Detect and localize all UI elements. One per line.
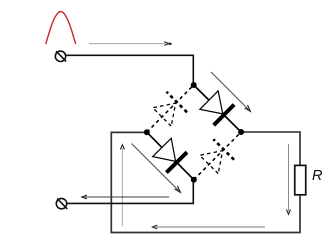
input sine half-wave (red) xyxy=(46,12,76,45)
current arrow (input, rightward, gray) xyxy=(89,42,171,46)
wire T1 to bridge top node xyxy=(66,55,194,85)
current arrow (return to source, leftward) xyxy=(82,195,169,199)
current arrow (left side, upward, gray) xyxy=(120,145,124,226)
current arrow along D3 xyxy=(132,144,181,193)
diode D3 (conducting, left node to bottom node) xyxy=(147,132,194,180)
terminal T2 xyxy=(56,198,67,208)
wire T2 to bridge bottom node xyxy=(67,180,194,204)
current arrow along D1 xyxy=(211,72,250,111)
diode D2 (off, dashed, left node to top node) xyxy=(147,85,194,132)
node (bridge left) xyxy=(144,129,150,135)
terminal T1 xyxy=(55,51,66,62)
current arrow (bottom return, leftward) xyxy=(152,225,265,229)
node (bridge bottom) xyxy=(191,177,197,183)
node (bridge top) xyxy=(191,82,197,88)
resistor R xyxy=(295,165,306,194)
node (bridge right) xyxy=(238,129,244,135)
diode D1 (conducting, top node to right node) xyxy=(194,85,241,132)
current arrow (down through load branch) xyxy=(287,144,291,214)
diode D4 (off, dashed, bottom node to right node) xyxy=(194,132,241,180)
wire resistor bottom / bottom return / left side up to left node xyxy=(111,132,300,232)
wire bridge right node to resistor top xyxy=(241,132,300,165)
label R xyxy=(312,170,322,180)
